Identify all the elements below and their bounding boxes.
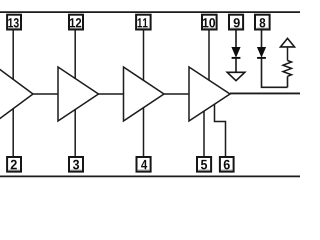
- amplifier A1 (left edge cropped): [0, 67, 33, 121]
- ground open arrow down: [227, 72, 245, 80]
- pin 13: [7, 15, 21, 30]
- wire A1 output to A2 input: [33, 93, 58, 95]
- wire resistor R1 to node above output line: [287, 76, 289, 87]
- diode D2: [257, 47, 266, 58]
- wire pin 12 to A2: [74, 31, 76, 79]
- wire A4 to pin 5: [203, 111, 205, 156]
- amplifier A4: [189, 67, 230, 121]
- pin 8: [255, 15, 270, 30]
- wire A2 output to A3 input: [99, 93, 124, 95]
- pin 5: [197, 157, 211, 172]
- pin 6: [220, 157, 234, 172]
- pin 12: [69, 15, 83, 30]
- wire pin 8 to diode D2: [261, 31, 263, 48]
- wire VCC arrow to resistor R1: [287, 47, 289, 61]
- chip outline bottom edge: [0, 175, 300, 177]
- wire A3 to pin 4: [143, 107, 145, 156]
- pin 9: [229, 15, 243, 30]
- chip outline top edge: [0, 11, 300, 13]
- pin 2: [7, 157, 21, 172]
- amplifier A2: [58, 67, 99, 121]
- wire A3 output to A4 input: [164, 93, 189, 95]
- pin 4: [137, 157, 151, 172]
- wire output from A4 to right edge: [230, 92, 300, 94]
- pin 11: [136, 15, 151, 30]
- wire A1 to pin 2: [12, 108, 14, 156]
- amplifier A3: [124, 67, 165, 121]
- resistor R1: [283, 61, 292, 77]
- wire pin 13 to A1: [12, 31, 14, 80]
- wire D2 down and across to resistor R1: [262, 59, 288, 88]
- pin 10: [202, 15, 217, 30]
- wire pin 9 to diode D1: [235, 31, 237, 48]
- wire pin 10 to A4: [208, 31, 210, 81]
- diode D1: [232, 47, 241, 58]
- pin 3: [69, 157, 83, 172]
- wire D1 to ground arrow: [235, 59, 237, 73]
- wire pin 11 to A3: [143, 31, 145, 81]
- wire A2 to pin 3: [74, 109, 76, 156]
- wire A4 to pin 6: [215, 104, 226, 156]
- power arrow up (VCC): [281, 38, 295, 47]
